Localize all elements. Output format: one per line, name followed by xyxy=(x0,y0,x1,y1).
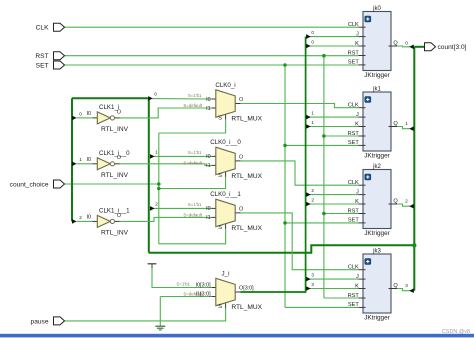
svg-text:S=1'b1: S=1'b1 xyxy=(188,150,202,155)
svg-text:I0: I0 xyxy=(206,206,211,212)
wire J_i output bus vertical xyxy=(240,37,305,292)
tap arrow count bit1 to mux I0 xyxy=(150,154,155,159)
svg-text:RTL_INV: RTL_INV xyxy=(101,126,129,133)
svg-text:S: S xyxy=(218,173,222,179)
wire jk3 Q to count bus xyxy=(397,289,411,291)
svg-text:S=1'b1: S=1'b1 xyxy=(176,281,190,286)
wire CLK0_i__1 O to jk3 CLK xyxy=(240,213,358,270)
svg-text:I1: I1 xyxy=(206,163,211,169)
wire jk1 Q to count bus xyxy=(397,127,411,129)
svg-text:0: 0 xyxy=(405,41,408,46)
svg-text:RTL_INV: RTL_INV xyxy=(101,172,129,179)
svg-text:1: 1 xyxy=(79,157,82,162)
wire J bus branch to jk1 J xyxy=(308,116,359,118)
wire S branch to mux CLK0_i__0 S xyxy=(159,177,226,189)
svg-text:3: 3 xyxy=(311,282,314,287)
inverter CLK1_i (CLK1_i) xyxy=(87,104,129,133)
svg-text:RST: RST xyxy=(348,131,360,137)
svg-text:3: 3 xyxy=(311,273,314,278)
junction RST at jk2 row xyxy=(322,212,326,216)
wire J bus branch to jk1 K xyxy=(308,126,359,128)
wire count bit1 tap to CLK0_i__0 I0 xyxy=(150,155,212,157)
wire CLK1_i__0 output to CLK0_i__0 I1 xyxy=(120,164,212,166)
wire jk0 Q to count bus xyxy=(397,45,411,48)
svg-text:2: 2 xyxy=(311,197,314,202)
svg-text:I0[3:0]: I0[3:0] xyxy=(196,283,211,289)
svg-text:CLK: CLK xyxy=(348,103,359,109)
svg-text:J: J xyxy=(356,112,359,118)
svg-text:S=default: S=default xyxy=(183,292,202,297)
mux CLK0_i__1 (CLK0_i__1) xyxy=(183,191,262,232)
svg-text:0: 0 xyxy=(311,39,314,44)
wire S branch to mux CLK0_i__1 S xyxy=(159,229,226,244)
svg-text:CLK0_i: CLK0_i xyxy=(215,82,235,89)
svg-text:2: 2 xyxy=(311,188,314,193)
junction arrow jk1 Q into count bus xyxy=(409,126,414,131)
svg-text:3: 3 xyxy=(405,283,408,288)
wire GND to J_i I1 xyxy=(160,296,211,298)
svg-text:Q: Q xyxy=(393,198,398,204)
wire J bus branch to jk0 K xyxy=(308,45,359,47)
svg-text:J: J xyxy=(356,31,359,37)
svg-text:I0: I0 xyxy=(87,157,92,163)
svg-text:J: J xyxy=(356,189,359,195)
svg-text:RST: RST xyxy=(348,208,360,214)
wire RST branch to jk3 RST xyxy=(324,297,359,299)
svg-text:S=1'b1: S=1'b1 xyxy=(188,202,202,207)
svg-text:1: 1 xyxy=(155,149,158,154)
svg-text:jk1: jk1 xyxy=(372,86,381,92)
svg-text:S: S xyxy=(218,304,222,310)
svg-text:S=default: S=default xyxy=(183,212,202,217)
wire J bus branch to jk2 J xyxy=(308,194,359,196)
tap arrow count bit2 to inverter xyxy=(72,219,77,224)
tap arrow J bus to jk3 K xyxy=(306,286,311,291)
svg-text:I1: I1 xyxy=(206,215,211,221)
svg-text:RTL_MUX: RTL_MUX xyxy=(231,304,262,311)
svg-text:I0: I0 xyxy=(87,214,92,220)
junction count bus at right trunk xyxy=(412,243,416,247)
mux J_i (J_i) xyxy=(176,270,262,311)
wire RST branch to jk2 RST xyxy=(324,213,359,215)
svg-text:K: K xyxy=(355,199,359,205)
junction RST at jk0 row xyxy=(322,54,326,58)
tap arrow count bit0 to mux I0 xyxy=(148,96,153,101)
svg-text:CLK1_i__0: CLK1_i__0 xyxy=(99,150,130,157)
wire count bus right trunk vertical xyxy=(413,47,415,291)
svg-text:2: 2 xyxy=(79,215,82,220)
wire J bus branch to jk2 K xyxy=(308,203,359,205)
wire J bus branch to jk3 J xyxy=(308,278,359,280)
svg-text:count_choice: count_choice xyxy=(10,181,49,188)
junction arrow jk0 Q into count bus xyxy=(409,45,414,50)
tap arrow count bit1 to inverter xyxy=(72,162,77,167)
svg-text:K: K xyxy=(355,41,359,47)
svg-text:JKtrigger: JKtrigger xyxy=(364,230,390,237)
output port count[3:0] xyxy=(425,43,467,51)
wire CLK net: CLK port to jk0 CLK xyxy=(64,26,358,28)
svg-text:RTL_MUX: RTL_MUX xyxy=(231,116,262,123)
svg-text:2: 2 xyxy=(155,201,158,206)
wire J bus branch to jk3 K xyxy=(308,288,359,290)
svg-text:JKtrigger: JKtrigger xyxy=(364,72,390,79)
svg-text:J: J xyxy=(356,274,359,280)
wire GND stem xyxy=(159,297,161,327)
wire CLK0_i__0 O to jk2 CLK xyxy=(240,161,358,185)
input port RST xyxy=(35,52,64,60)
svg-text:O[3:0]: O[3:0] xyxy=(239,285,254,291)
wire count_choice port to S vertical xyxy=(64,183,159,185)
svg-text:CLK: CLK xyxy=(348,22,359,28)
JK flip-flop jk2 (JKtrigger) xyxy=(348,164,399,237)
svg-text:Q: Q xyxy=(393,40,398,46)
tap arrow count bit2 to mux I0 xyxy=(150,206,155,211)
wire pause port to J_i S xyxy=(64,308,225,321)
ground symbol xyxy=(155,326,165,330)
wire J bus branch to jk0 J xyxy=(308,36,359,38)
tap arrow J bus to jk0 J xyxy=(306,34,311,39)
junction RST at jk1 row xyxy=(322,134,326,138)
input port SET xyxy=(36,61,65,69)
wire count bus to count port xyxy=(414,46,424,48)
svg-text:SET: SET xyxy=(348,302,359,308)
junction SET at jk1 row xyxy=(283,144,287,148)
svg-text:RTL_MUX: RTL_MUX xyxy=(231,225,262,232)
svg-text:jk0: jk0 xyxy=(372,6,381,12)
JK flip-flop jk3 (JKtrigger) xyxy=(348,248,399,321)
wire count bus top horizontal xyxy=(72,97,149,99)
svg-text:O: O xyxy=(239,206,243,212)
svg-text:S: S xyxy=(218,225,222,231)
wire SET bus vertical xyxy=(284,65,286,307)
svg-text:SET: SET xyxy=(348,60,359,66)
svg-text:pause: pause xyxy=(31,318,49,325)
JK flip-flop jk1 (JKtrigger) xyxy=(348,86,399,159)
wire count bus left trunk vertical xyxy=(71,98,73,221)
junction arrow jk2 Q into count bus xyxy=(409,204,414,209)
svg-text:CLK1_i__1: CLK1_i__1 xyxy=(99,208,130,215)
wire RST bus vertical xyxy=(323,56,325,298)
inverter CLK1_i__1 (CLK1_i__1) xyxy=(87,208,131,237)
svg-text:RTL_INV: RTL_INV xyxy=(101,230,129,237)
svg-text:S=default: S=default xyxy=(183,103,202,108)
svg-text:I1: I1 xyxy=(206,106,211,112)
wire VCC to J_i I0 xyxy=(152,268,212,288)
svg-text:CLK: CLK xyxy=(348,180,359,186)
wire count bit1 tap to inverter CLK1_i__0 xyxy=(77,163,93,165)
wire count bit2 tap to CLK0_i__1 I0 xyxy=(150,207,212,209)
svg-text:1: 1 xyxy=(311,120,314,125)
wire count bus mid trunk vertical xyxy=(148,98,150,253)
wire RST branch to jk1 RST xyxy=(324,135,359,137)
svg-text:count[3:0]: count[3:0] xyxy=(438,44,467,51)
wire SET branch to jk1 SET xyxy=(285,144,358,146)
svg-text:I0: I0 xyxy=(87,111,92,117)
svg-text:I0: I0 xyxy=(206,97,211,103)
svg-text:RTL_MUX: RTL_MUX xyxy=(231,173,262,180)
svg-text:jk3: jk3 xyxy=(372,248,381,254)
junction arrow jk3 Q into count bus xyxy=(409,288,414,293)
svg-text:0: 0 xyxy=(311,30,314,35)
tap arrow J bus to jk0 K xyxy=(306,44,311,49)
svg-text:SET: SET xyxy=(348,218,359,224)
power VCC const1 symbol xyxy=(148,264,157,269)
svg-text:JKtrigger: JKtrigger xyxy=(364,314,390,321)
JK flip-flop jk0 (JKtrigger) xyxy=(348,6,399,79)
svg-text:CLK0_i__1: CLK0_i__1 xyxy=(210,191,241,198)
svg-text:O: O xyxy=(239,97,243,103)
svg-text:Q: Q xyxy=(393,283,398,289)
junction count_choice at port row xyxy=(157,182,161,186)
tap arrow J bus to jk2 J xyxy=(306,192,311,197)
tap arrow J bus to jk3 J xyxy=(306,277,311,282)
wire RST net: RST port to jk0 RST xyxy=(64,55,358,57)
wire CLK1_i__1 output to CLK0_i__1 I1 xyxy=(120,217,212,221)
wire SET branch to jk3 SET xyxy=(285,306,358,308)
svg-text:I0: I0 xyxy=(206,154,211,160)
svg-text:1: 1 xyxy=(311,111,314,116)
svg-text:RST: RST xyxy=(348,293,360,299)
wire count_choice S vertical xyxy=(158,133,160,244)
svg-text:J_i: J_i xyxy=(222,270,230,277)
svg-text:S: S xyxy=(218,115,222,121)
svg-text:jk2: jk2 xyxy=(372,164,381,170)
svg-text:0: 0 xyxy=(154,91,157,96)
junction SET at jk0 row xyxy=(283,63,287,67)
svg-text:RST: RST xyxy=(35,53,48,60)
mux CLK0_i (CLK0_i) xyxy=(183,82,262,123)
svg-text:K: K xyxy=(355,283,359,289)
svg-text:CLK: CLK xyxy=(36,25,49,32)
wire S branch to mux CLK0_i S xyxy=(159,119,226,133)
svg-text:CLK1_i: CLK1_i xyxy=(99,104,119,111)
tap arrow J bus to jk1 J xyxy=(306,115,311,120)
bottom blue bar xyxy=(0,334,474,338)
svg-text:Q: Q xyxy=(393,121,398,127)
wire CLK0_i O to jk1 CLK xyxy=(240,104,358,108)
svg-text:2: 2 xyxy=(405,199,408,204)
svg-text:1: 1 xyxy=(405,121,408,126)
input port pause xyxy=(31,317,65,325)
svg-text:K: K xyxy=(355,121,359,127)
input port CLK xyxy=(36,23,65,31)
svg-text:CLK0_i__0: CLK0_i__0 xyxy=(210,139,241,146)
wire count bit2 tap to inverter CLK1_i__1 xyxy=(77,220,93,222)
input port count_choice xyxy=(10,180,65,188)
svg-text:RST: RST xyxy=(348,50,360,56)
wire count bit0 tap to CLK0_i I0 xyxy=(152,98,211,100)
tap arrow count bit0 to inverter xyxy=(72,116,77,121)
tap arrow J bus to jk1 K xyxy=(306,124,311,129)
wire SET net: SET port to jk0 SET xyxy=(64,64,358,66)
svg-text:CLK: CLK xyxy=(348,265,359,271)
svg-text:SET: SET xyxy=(36,62,49,69)
mux CLK0_i__0 (CLK0_i__0) xyxy=(183,139,262,180)
wire count bus bottom horizontal xyxy=(149,245,415,253)
junction count_choice S branch xyxy=(157,187,161,191)
wire CLK1_i output to CLK0_i I1 xyxy=(120,108,212,118)
svg-text:0: 0 xyxy=(79,111,82,116)
junction SET at jk2 row xyxy=(283,221,287,225)
wire count bit0 tap to inverter CLK1_i xyxy=(77,117,93,119)
svg-text:SET: SET xyxy=(348,140,359,146)
svg-text:S=default: S=default xyxy=(183,160,202,165)
wire jk2 Q to count bus xyxy=(397,204,411,206)
svg-text:S=1'b1: S=1'b1 xyxy=(188,93,202,98)
wire SET branch to jk2 SET xyxy=(285,222,358,224)
inverter CLK1_i__0 (CLK1_i__0) xyxy=(87,150,131,179)
svg-text:JKtrigger: JKtrigger xyxy=(364,152,390,159)
tap arrow J bus to jk2 K xyxy=(306,202,311,207)
svg-text:O: O xyxy=(239,154,243,160)
